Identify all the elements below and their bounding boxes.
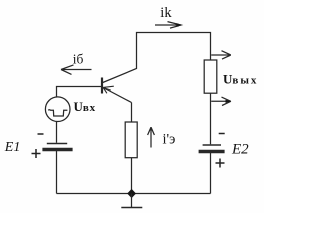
transistor VT emitter arrowhead (points into base bar) <box>103 86 114 93</box>
svg-text:Uвх: Uвх <box>74 99 96 114</box>
source Uвх circle <box>45 97 70 122</box>
battery E1 thin plate <box>47 143 67 145</box>
battery E2 thin plate <box>203 144 221 146</box>
resistor R emitter (rect) <box>125 122 137 158</box>
arrow ik (collector current, points right) <box>155 22 181 29</box>
polarity plus E2 <box>216 159 225 168</box>
svg-text:Uвых: Uвых <box>223 71 258 86</box>
wire: E2 to bottom rail <box>210 153 212 194</box>
svg-text:i'э: i'э <box>163 132 176 148</box>
arrow i'э (emitter current, points up) <box>148 127 155 147</box>
polarity plus E1 <box>32 149 41 158</box>
arrow iб (base current, points left) <box>61 65 92 75</box>
source Uвх waveform (square pulse) <box>48 110 67 116</box>
wire: bottom rail <box>57 193 211 195</box>
transistor VT base bar <box>101 78 103 94</box>
wire: collector diagonal, riser and top rail to load <box>103 33 211 83</box>
wire: base wire from source to bar <box>57 87 102 98</box>
resistor R collector load (rect) <box>204 60 217 93</box>
battery E1 thick plate <box>42 148 72 152</box>
wire: E1 to bottom rail <box>56 151 58 194</box>
wire: source to battery E1 <box>56 121 58 142</box>
polarity minus E1 <box>38 133 44 135</box>
polarity minus E2 <box>219 133 225 135</box>
node: junction dot on bottom rail <box>127 189 136 198</box>
battery E2 thick plate <box>199 150 225 154</box>
wire: resistor bottom to bottom rail <box>131 158 133 194</box>
svg-text:ik: ik <box>160 5 172 21</box>
arrow Uвых upper (points right) <box>211 51 231 59</box>
svg-text:E2: E2 <box>231 141 249 157</box>
transistor VT emitter line <box>103 88 132 103</box>
ground stub <box>131 194 133 208</box>
svg-text:iб: iб <box>73 52 84 67</box>
ground bar <box>121 207 142 209</box>
wire: load resistor to battery E2 <box>210 93 212 144</box>
wire: emitter riser down to resistor <box>131 103 133 123</box>
arrow Uвых lower (points right) <box>211 97 231 105</box>
svg-text:E1: E1 <box>4 140 21 155</box>
